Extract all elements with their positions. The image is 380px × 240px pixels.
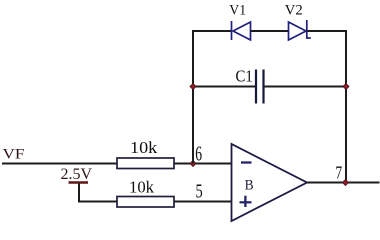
wire R2 to op-amp non-inverting input [174,201,232,203]
wire left vertical (node 6 up to diode branch) [192,31,194,164]
diode V2 (pointing right, hooked cathode bar) [289,20,311,40]
op-amp U:B triangle [232,144,308,221]
svg-text:10k: 10k [129,177,155,196]
op-amp plus sign [240,196,252,207]
node capacitor-right junction dot [343,83,349,89]
svg-text:6: 6 [195,141,202,165]
wire top branch right segment [307,30,347,32]
svg-text:2.5V: 2.5V [61,166,93,183]
svg-text:VF: VF [3,147,25,163]
wire capacitor branch left [193,86,256,88]
resistor 10k (upper, to pin 6) [117,158,174,169]
svg-text:B: B [245,178,254,194]
wire 2.5V bar down [79,184,117,202]
power rail bar 2.5V [69,181,89,183]
node output junction dot [342,179,348,185]
node pin6 junction dot [190,160,196,166]
svg-text:7: 7 [335,163,342,183]
wire top branch left segment [192,30,232,32]
op-amp minus sign [241,161,252,163]
wire op-amp output [307,182,380,184]
resistor 10k (lower, to pin 5) [117,197,174,208]
node capacitor-left junction dot [190,83,196,89]
wire between V1 and V2 [251,30,289,32]
diode V1 (pointing left) [232,21,251,40]
wire VF to R1 [2,163,117,165]
svg-text:10k: 10k [130,138,158,157]
wire capacitor branch right [264,86,347,88]
capacitor C1 [256,70,264,104]
svg-text:V2: V2 [285,2,303,18]
svg-text:C1: C1 [236,67,253,86]
svg-text:5: 5 [196,182,203,203]
svg-text:V1: V1 [229,2,246,18]
wire right vertical (output up to diode branch) [345,31,347,183]
wire R1 to op-amp inverting input [174,163,232,165]
